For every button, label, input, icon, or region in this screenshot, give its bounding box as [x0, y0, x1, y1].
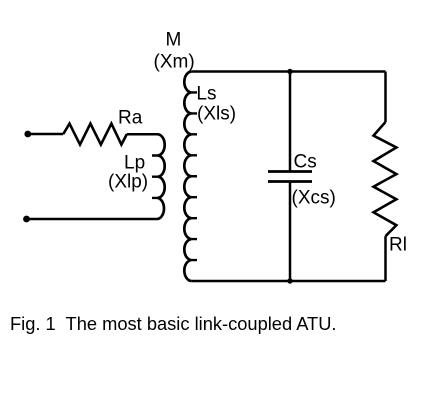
inductor Ls (secondary winding): [184, 72, 191, 282]
wire: top-left terminal to resistor Ra: [28, 133, 64, 136]
wire: inductor Lp to bottom-left terminal: [27, 218, 158, 221]
junction node bottom: [287, 278, 292, 283]
resistor Rl: [374, 122, 397, 236]
inductor Lp (primary winding): [158, 134, 165, 219]
wire: capacitor Cs branch lower: [289, 182, 292, 282]
wire: right branch upper: [384, 72, 387, 123]
svg-text:Ls: Ls: [196, 84, 216, 105]
svg-text:(Xlp): (Xlp): [108, 172, 148, 193]
wire: bottom rail: [191, 280, 385, 283]
wire: capacitor Cs branch upper: [289, 72, 292, 172]
svg-text:Cs: Cs: [294, 151, 317, 172]
wire: resistor Ra to inductor Lp: [127, 133, 159, 136]
terminal dot top-left: [24, 131, 31, 138]
svg-text:Fig. 1 The most basic link-co: Fig. 1 The most basic link-coupled ATU.: [10, 313, 337, 334]
wire: right branch lower: [384, 236, 387, 281]
svg-text:M: M: [166, 30, 182, 51]
svg-text:Lp: Lp: [124, 153, 145, 174]
svg-text:(Xm): (Xm): [154, 52, 195, 73]
capacitor Cs plates: [268, 172, 312, 182]
svg-text:(Xls): (Xls): [197, 104, 236, 125]
resistor Ra: [63, 124, 127, 145]
svg-text:Rl: Rl: [389, 235, 407, 256]
svg-text:Ra: Ra: [118, 108, 143, 129]
Ls coil ticks: [191, 92, 197, 260]
Lp coil ticks: [152, 156, 158, 198]
svg-text:(Xcs): (Xcs): [292, 188, 336, 209]
wire: top rail: [191, 70, 385, 73]
junction node top: [287, 69, 292, 74]
terminal dot bottom-left: [23, 216, 30, 223]
